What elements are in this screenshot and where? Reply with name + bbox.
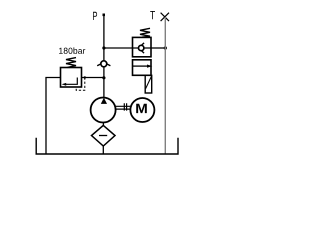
flow arrow in position 2 bbox=[133, 65, 148, 67]
plugged port X bbox=[161, 13, 169, 21]
node: T line junction bbox=[164, 46, 167, 49]
relief valve spring bbox=[66, 58, 76, 68]
wire: valve feed line bbox=[104, 47, 133, 49]
port P stub dot bbox=[103, 14, 106, 17]
wire: T return line (grey) bbox=[164, 17, 166, 154]
shaft coupling bbox=[116, 106, 131, 109]
node: pilot tap junction bbox=[84, 76, 86, 78]
wire: relief valve inlet bbox=[82, 77, 104, 79]
directional valve DV1 position 1 body (check) bbox=[133, 37, 152, 56]
pump P1 bbox=[91, 98, 116, 123]
wire: P pressure line vertical bbox=[103, 14, 105, 98]
filter F1 bbox=[92, 125, 116, 146]
wire: valve to T line bbox=[151, 47, 165, 49]
node: P/valve junction bbox=[102, 46, 105, 49]
wire: filter to tank bbox=[102, 146, 104, 154]
check valve (inside DV1 position 1) bbox=[138, 43, 144, 53]
wire: pump suction bbox=[102, 123, 104, 126]
tank bbox=[36, 138, 178, 154]
port P label bbox=[93, 12, 97, 20]
relief valve flow arrow bbox=[66, 78, 78, 85]
solenoid actuator bbox=[145, 75, 152, 93]
directional valve DV1 position 2 body (through arrow) bbox=[133, 60, 152, 76]
check valve V1 on pump line bbox=[97, 61, 110, 67]
motor M1 bbox=[130, 98, 154, 122]
value label 180bar bbox=[59, 47, 85, 53]
node: P/relief junction bbox=[102, 76, 105, 79]
wire: relief outlet to tank bbox=[46, 78, 61, 155]
valve spring (top of DV1) bbox=[140, 28, 150, 37]
wire: line through valve position 1 bbox=[133, 47, 152, 49]
relief valve pilot line (dashed) bbox=[76, 78, 85, 91]
relief valve body RV1 bbox=[61, 68, 82, 88]
port T label bbox=[150, 11, 155, 19]
